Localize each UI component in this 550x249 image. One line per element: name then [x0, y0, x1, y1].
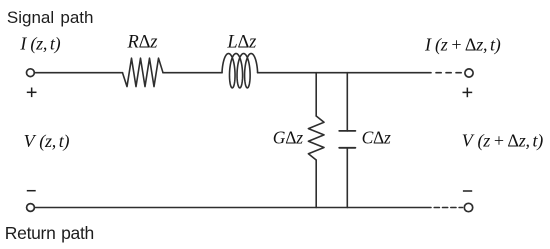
svg-text:Signal path: Signal path: [7, 8, 94, 27]
svg-text:I (z + Δz, t): I (z + Δz, t): [424, 35, 501, 56]
svg-text:Return path: Return path: [5, 223, 94, 243]
svg-text:I (z, t): I (z, t): [19, 34, 60, 55]
svg-text:RΔz: RΔz: [127, 32, 158, 52]
svg-text:V (z + Δz, t): V (z + Δz, t): [462, 130, 543, 151]
svg-text:LΔz: LΔz: [226, 32, 256, 52]
svg-text:GΔz: GΔz: [273, 127, 303, 147]
svg-text:V (z, t): V (z, t): [24, 131, 70, 152]
svg-text:CΔz: CΔz: [362, 127, 391, 147]
